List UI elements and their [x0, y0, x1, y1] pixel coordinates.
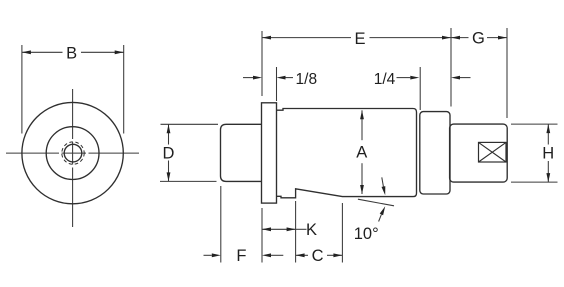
flange [262, 103, 277, 203]
10 degree angle arrow [382, 177, 384, 186]
dimension 1/8 left arrow [243, 77, 253, 79]
svg-text:A: A [356, 144, 367, 162]
svg-text:F: F [236, 247, 246, 265]
outer circle [22, 102, 123, 203]
svg-text:K: K [306, 221, 317, 239]
dimension C right extension line [341, 203, 343, 263]
dimension F left extension line [220, 186, 222, 263]
front view horizontal centerline [6, 152, 139, 154]
svg-text:1/8: 1/8 [296, 71, 318, 88]
svg-text:C: C [312, 247, 324, 265]
svg-text:D: D [162, 144, 174, 162]
dimension G right extension line [506, 28, 508, 118]
svg-text:1/4: 1/4 [374, 71, 396, 88]
dimension D line [168, 124, 170, 144]
dimension 1/8 right extension line [276, 67, 278, 101]
svg-text:H: H [542, 145, 554, 163]
svg-text:G: G [472, 30, 485, 48]
dimension F left arrow [204, 254, 212, 256]
dimension H top extension line [511, 123, 558, 125]
inner pilot hole circle [64, 144, 82, 162]
dimension E right extension line [450, 28, 452, 107]
dimension D bottom extension line [160, 180, 217, 182]
square drive hole [479, 142, 507, 162]
dimension F right arrow [262, 253, 271, 257]
dimension 1/4 right arrow [451, 76, 460, 80]
dimension K line [262, 228, 296, 230]
dimension 1/8 right arrow [277, 76, 286, 80]
left stub of shaft [221, 124, 262, 181]
dimension E line [262, 37, 351, 39]
dimension F right extension line [261, 208, 263, 263]
front view vertical centerline [72, 89, 74, 227]
dimension A line [361, 110, 363, 140]
main body outline with relief taper [277, 109, 417, 198]
10 degree angle reference line [358, 199, 394, 206]
dimension B line [22, 51, 63, 53]
dashed thread circle [62, 142, 84, 164]
dimension H bottom extension line [511, 181, 558, 183]
dimension G line [451, 37, 469, 39]
collar [420, 112, 450, 194]
dimension K right extension line [295, 201, 297, 263]
svg-text:E: E [354, 30, 365, 48]
right drive shaft [450, 124, 508, 182]
svg-text:10°: 10° [354, 225, 379, 243]
dimension B extension line left [21, 45, 23, 134]
svg-text:B: B [66, 44, 77, 62]
dimension 1/4 left arrow [397, 77, 411, 79]
dimension H line [547, 124, 549, 144]
dimension B extension line right [123, 45, 125, 134]
10 degree leader line [379, 214, 382, 221]
dimension E left extension line [261, 31, 263, 96]
dimension C line [296, 254, 308, 256]
dimension 1/4 extension line [419, 67, 421, 110]
middle circle [46, 127, 99, 180]
dimension D top extension line [161, 123, 219, 125]
